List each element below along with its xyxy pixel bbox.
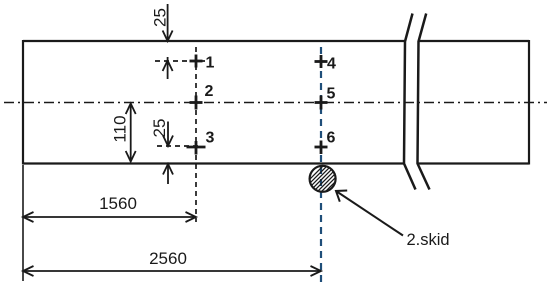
centerline (dash-dot axis) (4, 102, 547, 104)
left extension line below beam (22, 165, 24, 281)
svg-text:6: 6 (327, 130, 336, 147)
svg-text:2.skid: 2.skid (407, 231, 450, 249)
svg-text:5: 5 (327, 86, 336, 103)
break line left (404, 14, 416, 190)
beam outline bottom edge right segment (417, 162, 529, 164)
svg-text:110: 110 (111, 115, 130, 142)
110 dimension line with arrows (126, 104, 136, 162)
1560 dimension line with arrows (23, 212, 196, 222)
break line right (418, 14, 430, 190)
point 3 cross (187, 141, 206, 155)
svg-text:1560: 1560 (99, 194, 137, 213)
point 5 cross (315, 96, 328, 110)
point 2 cross (190, 96, 203, 110)
top 25 dimension line with arrows (163, 4, 173, 79)
skid leader arrow (336, 191, 403, 236)
2560 dimension line with arrows (23, 266, 321, 276)
beam outline top edge right segment (419, 40, 530, 42)
point 1 cross (190, 55, 203, 68)
point 6 cross (315, 141, 328, 155)
skid circle with hatch (297, 160, 357, 192)
level dashed line at point 1 (155, 60, 208, 62)
svg-text:25: 25 (150, 119, 169, 138)
svg-text:2560: 2560 (149, 249, 187, 268)
beam left edge (22, 40, 24, 165)
svg-text:2: 2 (205, 83, 214, 100)
svg-text:3: 3 (206, 130, 215, 147)
beam outline bottom edge left segment (23, 162, 404, 164)
svg-text:1: 1 (206, 55, 215, 72)
bottom 25 dimension line with arrows (163, 122, 173, 185)
svg-text:25: 25 (151, 8, 170, 27)
right construction dashed line (blue) through points 4-6 (320, 47, 322, 282)
left construction dashed line through points 1-3 (195, 47, 197, 222)
beam right edge (528, 40, 530, 165)
svg-text:4: 4 (327, 56, 336, 73)
beam outline top edge left segment (23, 40, 405, 42)
point 4 cross (315, 55, 328, 68)
level dashed line at point 3 (157, 145, 200, 147)
